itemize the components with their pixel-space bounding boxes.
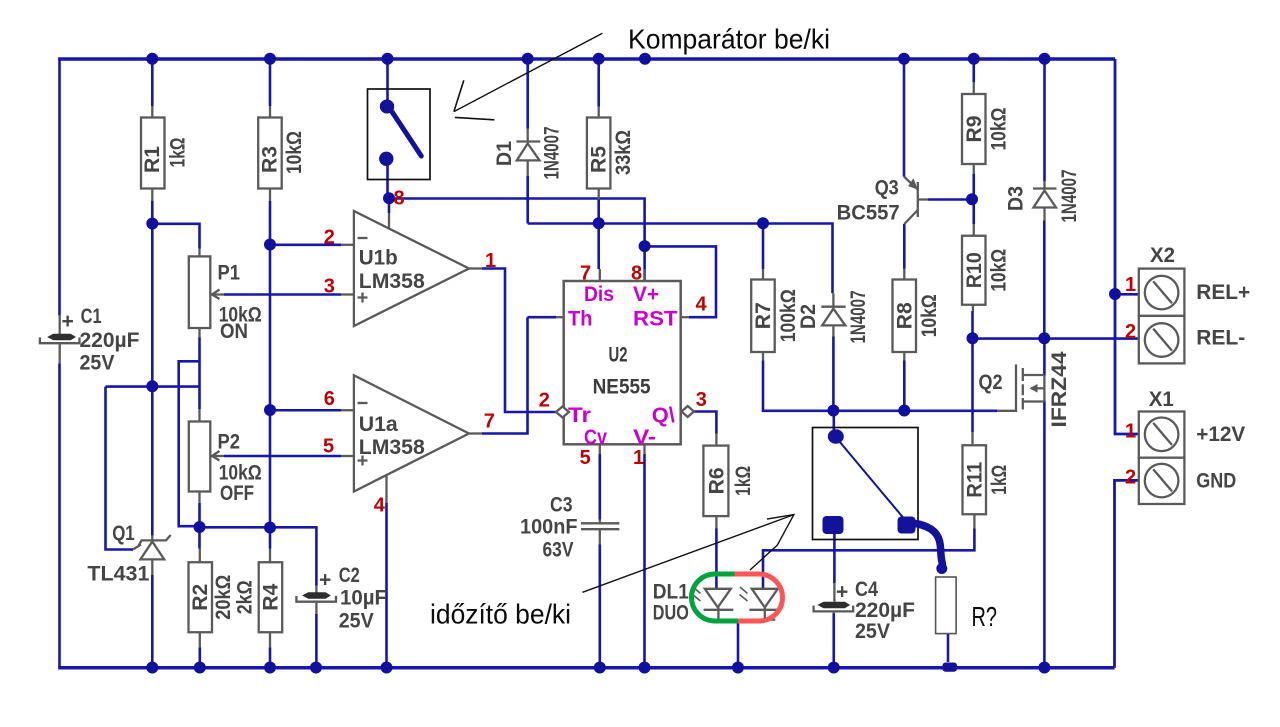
capacitor C2 10uF xyxy=(296,586,336,614)
node dot R4 top xyxy=(264,521,276,533)
wire timer switch top feed xyxy=(832,411,835,431)
arrow idozito head xyxy=(750,515,794,570)
wire U1a pin4 to ground bus xyxy=(385,503,388,668)
wire R1 node down to Q1 cathode xyxy=(151,224,154,536)
hand-drawn blob R? to bus xyxy=(943,663,958,672)
wire R11 bottom to LED2 anode xyxy=(763,529,974,589)
node dot Q3 base xyxy=(966,193,978,205)
svg-text:3: 3 xyxy=(696,389,707,411)
wire +12V right rail to X1 pin1 xyxy=(1115,59,1139,434)
wire Q1 anode to bus xyxy=(151,575,154,668)
svg-text:U1b: U1b xyxy=(359,246,398,269)
wire U1b output pin1 to 555 Tr xyxy=(482,269,556,413)
timer switch bottom-right contact xyxy=(898,517,916,534)
svg-text:DL1: DL1 xyxy=(653,581,689,604)
wire node y386 horizontal xyxy=(106,385,200,388)
svg-text:Tr: Tr xyxy=(568,404,591,427)
svg-text:C2: C2 xyxy=(339,564,360,587)
node dot bus R4 xyxy=(264,661,276,673)
svg-text:1N4007: 1N4007 xyxy=(541,127,564,180)
wire 555 Q pin3 to R6 xyxy=(694,412,717,434)
resistor R? (unknown) xyxy=(936,577,957,634)
svg-text:7: 7 xyxy=(580,262,591,284)
svg-text:R3: R3 xyxy=(259,146,282,173)
svg-text:R5: R5 xyxy=(587,146,610,173)
wire R? bottom lead xyxy=(947,634,950,662)
node dot top bus D3 xyxy=(1039,53,1051,65)
timer switch box xyxy=(813,428,919,540)
svg-text:R1: R1 xyxy=(141,146,164,173)
resistor R9 xyxy=(962,82,986,174)
svg-text:8: 8 xyxy=(631,262,642,284)
diode D2 1N4007 xyxy=(821,293,845,336)
resistor R4 xyxy=(259,549,283,648)
node dot R1/P1 xyxy=(146,218,158,230)
svg-text:R6: R6 xyxy=(705,467,728,494)
svg-text:10kΩ: 10kΩ xyxy=(283,131,306,174)
svg-text:GND: GND xyxy=(1196,470,1236,493)
svg-text:2kΩ: 2kΩ xyxy=(234,580,257,614)
node dot 8 xyxy=(383,192,395,204)
svg-text:10µF: 10µF xyxy=(340,587,387,610)
svg-text:20kΩ: 20kΩ xyxy=(212,575,235,620)
svg-text:RST: RST xyxy=(633,307,678,330)
arrow komparator shaft xyxy=(454,33,603,111)
svg-text:2: 2 xyxy=(539,390,550,412)
svg-text:D2: D2 xyxy=(797,304,820,329)
svg-text:33kΩ: 33kΩ xyxy=(612,130,635,175)
node dot y386 xyxy=(146,380,158,392)
svg-text:ON: ON xyxy=(220,320,248,343)
svg-text:1N4007: 1N4007 xyxy=(847,291,870,344)
node dot P2 bottom xyxy=(194,521,206,533)
wire C3 bottom to bus xyxy=(598,545,601,668)
wire Q3 collector to R8 xyxy=(903,224,906,269)
resistor R11 xyxy=(963,432,987,529)
wire R9 top feed xyxy=(972,59,975,82)
op-amp U1b LM358 xyxy=(341,211,482,326)
timer IC U2 NE555 xyxy=(556,269,694,454)
wire +12V top bus xyxy=(58,57,1115,60)
wire R11 top from REL- row xyxy=(971,339,974,432)
node dot bus R2 xyxy=(194,661,206,673)
wire R8 bottom to gate row xyxy=(903,361,906,411)
terminal block X1 xyxy=(1139,412,1185,505)
terminal block X2 xyxy=(1139,269,1185,364)
wire C2 bottom to bus xyxy=(315,614,318,668)
wire RST loop xyxy=(645,246,716,317)
node dot bus C4 xyxy=(828,661,840,673)
wire P2 bottom to node xyxy=(198,503,201,528)
comparator switch top contact xyxy=(380,100,394,114)
svg-text:1: 1 xyxy=(1125,421,1136,443)
wire Q3 emitter feed xyxy=(903,59,906,177)
timer switch lever xyxy=(837,438,907,521)
svg-text:C3: C3 xyxy=(550,494,573,517)
node dot top bus stray xyxy=(639,53,651,65)
capacitor C1 220uF xyxy=(40,315,80,363)
svg-text:1: 1 xyxy=(485,250,496,272)
svg-text:R8: R8 xyxy=(894,302,917,329)
svg-text:Komparátor be/ki: Komparátor be/ki xyxy=(628,24,830,55)
comparator switch lever xyxy=(391,110,422,157)
wire ref loop left of Q1 xyxy=(106,387,134,550)
node dot R10/R11 xyxy=(967,332,979,344)
svg-text:D1: D1 xyxy=(493,141,516,166)
svg-text:időzítő be/ki: időzítő be/ki xyxy=(430,599,571,630)
svg-text:1: 1 xyxy=(1125,274,1136,296)
potentiometer P1 xyxy=(189,249,224,338)
svg-text:R4: R4 xyxy=(259,583,282,610)
svg-text:Cv: Cv xyxy=(584,426,607,449)
resistor R2 xyxy=(189,549,213,648)
svg-text:R?: R? xyxy=(972,601,998,632)
transistor Q2 IRFZ44 (N-MOSFET) xyxy=(997,365,1044,411)
wire R5 bottom xyxy=(597,200,600,224)
comparator switch bottom contact xyxy=(379,152,393,166)
wire R9 bottom to base node xyxy=(972,174,975,200)
svg-text:IFRZ44: IFRZ44 xyxy=(1048,351,1071,427)
svg-text:Th: Th xyxy=(568,307,593,330)
svg-text:220µF: 220µF xyxy=(80,329,140,352)
wire U1a pin6 from R3/R4 node xyxy=(270,409,341,412)
wire comparator switch bottom to node 8 xyxy=(386,163,389,199)
svg-text:R11: R11 xyxy=(963,461,986,497)
wire R2 bottom to bus xyxy=(199,647,202,667)
wire node R1 to P1 top xyxy=(152,224,199,249)
wire R5 top feed xyxy=(597,59,600,107)
timer switch top contact xyxy=(828,429,844,443)
svg-text:10kΩ: 10kΩ xyxy=(988,108,1011,151)
node dot D1/R5 row xyxy=(593,217,605,229)
resistor R5 xyxy=(587,107,611,200)
resistor R8 xyxy=(893,269,917,361)
svg-text:Q1: Q1 xyxy=(112,522,135,545)
resistor R7 xyxy=(751,269,775,361)
svg-text:+: + xyxy=(836,581,848,604)
wire R2 top xyxy=(198,527,201,548)
svg-text:1kΩ: 1kΩ xyxy=(732,466,755,496)
wire node 8 to 555 V+ column xyxy=(389,199,645,282)
svg-text:R9: R9 xyxy=(963,116,986,143)
resistor R10 xyxy=(962,224,986,311)
wire R4 bottom to bus xyxy=(269,647,272,667)
hand-drawn blob R? top xyxy=(936,563,947,574)
node dot bus Q2 source xyxy=(1038,661,1050,673)
svg-text:C4: C4 xyxy=(855,578,878,601)
wire 555 V- pin1 to bus xyxy=(643,454,646,668)
wire R6 bottom to LED1 anode xyxy=(715,529,718,589)
svg-text:R7: R7 xyxy=(752,302,775,329)
svg-text:NE555: NE555 xyxy=(593,376,651,399)
svg-text:4: 4 xyxy=(374,495,386,517)
dual LED DL1 internals xyxy=(693,587,780,620)
svg-text:3: 3 xyxy=(324,276,335,298)
node dot bus Q1 xyxy=(146,661,158,673)
svg-text:V+: V+ xyxy=(633,283,659,306)
wire REL- row xyxy=(973,337,1139,340)
wire P1 bottom jog to P2 bottom xyxy=(179,361,200,526)
comparator switch box xyxy=(368,89,431,180)
svg-text:2: 2 xyxy=(1125,321,1136,343)
svg-text:7: 7 xyxy=(484,411,495,433)
svg-text:BC557: BC557 xyxy=(837,202,900,225)
wire R7 bottom / gate row y411 xyxy=(763,361,997,411)
svg-text:220µF: 220µF xyxy=(855,599,915,622)
svg-text:LM358: LM358 xyxy=(359,436,425,459)
capacitor C3 100nF xyxy=(581,520,619,545)
svg-text:D3: D3 xyxy=(1005,186,1028,211)
node dot D2/switch top xyxy=(827,405,839,417)
wire ground bottom bus xyxy=(58,666,1114,669)
wire LED cathode to bus xyxy=(737,620,740,668)
svg-text:6: 6 xyxy=(324,388,335,410)
node dot R3/pin6 xyxy=(264,404,276,416)
wire R1 top feed xyxy=(151,59,154,106)
svg-text:63V: 63V xyxy=(543,539,574,562)
wire U1b pin2 xyxy=(270,244,341,247)
wire U1b pin8 stub xyxy=(388,199,391,214)
svg-text:25V: 25V xyxy=(855,620,890,643)
svg-text:REL+: REL+ xyxy=(1196,281,1250,304)
arrow komparator head xyxy=(454,80,495,120)
diode D3 1N4007 xyxy=(1033,181,1057,221)
svg-text:+: + xyxy=(62,310,74,333)
node dot bus C2 xyxy=(310,661,322,673)
svg-text:U2: U2 xyxy=(609,344,628,367)
resistor R1 xyxy=(141,106,165,201)
node dot top bus switch xyxy=(382,53,394,65)
svg-text:LM358: LM358 xyxy=(359,270,425,293)
svg-text:Q2: Q2 xyxy=(979,371,1003,394)
resistor R6 xyxy=(703,434,728,529)
node dot R8/gate xyxy=(898,405,910,417)
wire R3 bottom / U1b pin2 node / down to R4 xyxy=(269,201,272,549)
svg-text:5: 5 xyxy=(580,447,591,469)
node dot bus LED xyxy=(732,661,744,673)
wire comparator switch top feed xyxy=(386,59,389,101)
diode D1 1N4007 xyxy=(516,129,540,177)
wire D3 bottom to REL- row xyxy=(1043,221,1046,339)
hand-drawn thick wire to R? xyxy=(912,523,943,564)
timer switch bottom-left contact xyxy=(823,516,844,534)
wire R7 top from y223 row xyxy=(762,224,765,270)
shunt regulator Q1 TL431 xyxy=(133,535,171,575)
wire P1 bottom to P2 top xyxy=(198,337,201,409)
wire X2 pin1 REL+ xyxy=(1115,293,1139,296)
wire timer switch bottom-left to C4 xyxy=(833,533,836,583)
node dot D3/Q2 drain xyxy=(1038,332,1050,344)
svg-text:10kΩ: 10kΩ xyxy=(918,294,941,337)
node dot R3/pin2 xyxy=(264,239,276,251)
svg-text:P2: P2 xyxy=(218,431,241,454)
svg-text:100nF: 100nF xyxy=(520,516,578,539)
svg-text:U1a: U1a xyxy=(359,413,398,436)
svg-text:Dis: Dis xyxy=(584,283,614,306)
wire left rail lower (C1 to ground bus) xyxy=(58,363,61,667)
svg-text:V-: V- xyxy=(633,426,656,449)
wire R10 bottom to REL- row xyxy=(971,311,974,339)
node dot top bus R9 xyxy=(968,53,980,65)
wire left rail upper (to C1) xyxy=(58,58,61,316)
svg-text:R2: R2 xyxy=(189,584,212,611)
wire 555 Cv pin5 to C3 xyxy=(598,454,601,520)
node dot top bus D1 xyxy=(522,53,534,65)
wire 555 Th pin6 to U1a output xyxy=(482,317,556,433)
wire D2 anode down to gate row xyxy=(832,337,835,411)
wire Q3 base to R9/R10 node xyxy=(928,198,972,201)
svg-text:REL-: REL- xyxy=(1196,326,1245,349)
svg-text:R10: R10 xyxy=(963,252,986,288)
dual LED DL1 green half outline xyxy=(692,574,739,621)
wire R1 bottom to node xyxy=(151,201,154,224)
svg-text:1N4007: 1N4007 xyxy=(1058,170,1081,223)
svg-text:P1: P1 xyxy=(218,262,241,285)
svg-text:25V: 25V xyxy=(80,352,115,375)
svg-text:Q\: Q\ xyxy=(652,404,675,427)
node dot V+ pin8 xyxy=(639,240,651,252)
wire GND X1 pin2 to bus xyxy=(1115,480,1139,667)
node dot top bus R5 xyxy=(593,53,605,65)
svg-text:C1: C1 xyxy=(81,305,102,328)
wire R10 top xyxy=(972,200,975,225)
svg-text:25V: 25V xyxy=(339,610,374,633)
wire P2 wiper to U1a pin5 xyxy=(224,455,341,458)
arrow idozito shaft xyxy=(583,515,794,593)
wire C4 bottom to bus xyxy=(832,614,835,668)
wire R5 node down to 555 Dis pin7 xyxy=(597,224,600,270)
svg-text:DUO: DUO xyxy=(653,602,689,625)
wire R3 top feed xyxy=(269,59,272,106)
svg-text:1kΩ: 1kΩ xyxy=(988,465,1011,495)
svg-text:2: 2 xyxy=(1125,467,1136,489)
wire P1 wiper to U1b pin3 xyxy=(224,293,341,296)
capacitor C4 220uF xyxy=(814,583,854,614)
node dot top bus R1 xyxy=(146,53,158,65)
wire D1 anode down xyxy=(526,176,529,224)
dual LED DL1 red half outline xyxy=(735,574,783,621)
svg-text:4: 4 xyxy=(696,294,708,316)
op-amp U1a LM358 xyxy=(341,375,482,503)
wire node y527 horizontal to C2 top xyxy=(200,527,317,586)
potentiometer P2 xyxy=(189,409,224,503)
resistor R3 xyxy=(258,106,282,201)
wire D1 top feed xyxy=(526,59,529,129)
transistor Q3 BC557 xyxy=(904,177,928,224)
svg-text:1kΩ: 1kΩ xyxy=(166,138,189,168)
svg-text:1: 1 xyxy=(633,447,644,469)
node dot REL+ rail xyxy=(1109,288,1121,300)
wire D3 top feed xyxy=(1043,59,1046,181)
node dot bus 555 pin1 xyxy=(639,661,651,673)
svg-text:TL431: TL431 xyxy=(87,563,149,586)
svg-text:+12V: +12V xyxy=(1196,423,1245,446)
svg-text:X2: X2 xyxy=(1150,244,1175,267)
node dot R7 top xyxy=(757,217,769,229)
wire Q2 drain up to REL- row xyxy=(1043,339,1046,376)
node dot bus U1a pin4 xyxy=(381,661,393,673)
node dot bus C3 xyxy=(594,661,606,673)
svg-text:10kΩ: 10kΩ xyxy=(988,249,1011,292)
wire D1-R5-R7-D2 row y223 xyxy=(528,224,833,294)
svg-text:2: 2 xyxy=(324,226,335,248)
svg-text:X1: X1 xyxy=(1149,388,1174,411)
node dot top bus Q3 xyxy=(898,53,910,65)
svg-text:8: 8 xyxy=(394,188,405,210)
svg-text:OFF: OFF xyxy=(220,482,254,505)
svg-text:5: 5 xyxy=(323,436,334,458)
svg-text:+: + xyxy=(319,569,331,592)
wire Q2 source to bus xyxy=(1043,401,1046,668)
svg-text:Q3: Q3 xyxy=(875,177,899,200)
node dot top bus R3 xyxy=(264,53,276,65)
